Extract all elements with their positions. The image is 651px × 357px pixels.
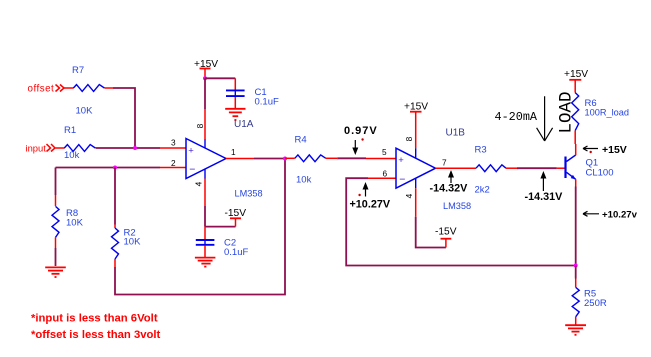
power +15V (U1A): [194, 59, 218, 78]
svg-text:6: 6: [383, 169, 388, 179]
svg-text:R3: R3: [475, 145, 487, 156]
power +15V (U1B): [404, 101, 428, 112]
svg-text:-14.31V: -14.31V: [525, 191, 564, 203]
junction input/offset: [133, 146, 137, 150]
svg-text:5: 5: [382, 147, 387, 157]
svg-text:-14.32V: -14.32V: [430, 182, 469, 194]
svg-text:+15V: +15V: [404, 101, 428, 112]
wire pin4 to -15V and C2: [205, 206, 236, 227]
op-amp U1B: [396, 148, 436, 188]
svg-text:offset: offset: [28, 84, 55, 95]
svg-text:+15V: +15V: [602, 144, 627, 156]
ground under C2: [195, 258, 216, 267]
op-amp U1A output wire: [226, 158, 285, 160]
resistor R2: [112, 168, 142, 268]
capacitor C2: [196, 227, 249, 258]
svg-text:-15V: -15V: [225, 208, 247, 219]
resistor R4: [285, 135, 337, 186]
resistor R5: [572, 279, 607, 325]
svg-text:+: +: [398, 155, 404, 166]
svg-text:10k: 10k: [296, 174, 312, 185]
svg-text:4: 4: [194, 181, 204, 186]
op-amp U1A: [186, 139, 226, 179]
svg-text:+: +: [188, 145, 194, 156]
resistor R7: [64, 65, 114, 117]
junction emitter/R5/feedback: [574, 264, 578, 268]
svg-text:1: 1: [231, 147, 236, 157]
wire R3 to Q1 base: [517, 167, 565, 169]
junction U1A output / R4: [283, 157, 287, 161]
wire R8 to ground: [55, 248, 57, 266]
svg-text:−: −: [399, 173, 405, 185]
ground under R5: [565, 325, 586, 335]
svg-text:CL100: CL100: [586, 168, 614, 179]
terminal label "input": [26, 143, 56, 154]
svg-text:3: 3: [171, 138, 176, 148]
svg-text:LM358: LM358: [443, 201, 471, 211]
svg-text:*input is less than 6Volt: *input is less than 6Volt: [31, 312, 158, 324]
svg-text:input: input: [26, 143, 47, 154]
op-amp U1B output wire: [436, 167, 477, 169]
ground under R8: [45, 267, 66, 277]
svg-text:-15V: -15V: [435, 227, 457, 238]
op-amp U1A pin 4: [194, 169, 206, 206]
probe -14.31V: [525, 171, 564, 203]
svg-text:LOAD: LOAD: [557, 91, 577, 133]
svg-text:4: 4: [404, 193, 414, 198]
svg-text:10K: 10K: [124, 237, 142, 248]
svg-text:+15V: +15V: [564, 69, 588, 80]
svg-text:R1: R1: [64, 125, 76, 136]
op-amp U1B pin 4: [404, 178, 416, 217]
Q1 emitter wire: [575, 179, 577, 265]
wire pin6 node / feedback from emitter: [346, 178, 576, 265]
svg-text:*offset is less than 3volt: *offset is less than 3volt: [31, 329, 161, 341]
svg-text:250R: 250R: [584, 298, 607, 309]
svg-text:7: 7: [442, 157, 447, 167]
svg-text:+10.27v: +10.27v: [602, 210, 638, 221]
svg-text:0.1uF: 0.1uF: [224, 247, 248, 258]
wire junction to R5: [575, 266, 577, 279]
wire R4 to pin5: [337, 157, 396, 159]
wire +15V to C1: [205, 78, 235, 109]
annotation arrow +15V at collector: [583, 144, 627, 156]
resistor R1: [56, 125, 96, 161]
junction +15V node: [203, 76, 207, 80]
svg-text:0.1uF: 0.1uF: [255, 96, 279, 107]
junction pin2/R2: [113, 166, 117, 170]
wire pin2 node: [56, 168, 187, 196]
svg-text:8: 8: [404, 136, 414, 141]
svg-text:10K: 10K: [66, 217, 84, 228]
resistor R3: [475, 145, 518, 196]
capacitor C1: [226, 78, 279, 108]
terminal label "offset": [28, 84, 65, 95]
power +15V (R6): [564, 69, 588, 93]
svg-text:4-20mA: 4-20mA: [495, 110, 538, 124]
ground under C1: [225, 109, 245, 120]
resistor R6 load: [572, 93, 629, 144]
svg-text:R4: R4: [295, 135, 307, 146]
probe 0.97V: [344, 125, 378, 155]
svg-text:U1B: U1B: [446, 128, 466, 139]
svg-text:0.97V: 0.97V: [344, 125, 378, 137]
svg-text:10K: 10K: [76, 106, 94, 117]
probe -14.32V: [430, 170, 469, 194]
svg-text:U1A: U1A: [234, 119, 254, 130]
svg-text:2k2: 2k2: [475, 184, 490, 195]
op-amp U1A pin 8: [195, 109, 205, 148]
op-amp U1B pin 8: [404, 112, 416, 159]
Q1 collector wire: [575, 144, 577, 155]
svg-text:8: 8: [195, 123, 205, 128]
power -15V (U1B): [435, 227, 457, 248]
resistor R8: [52, 195, 84, 248]
wire R2 bottom feedback to U1A output: [115, 159, 285, 295]
svg-text:+10.27V: +10.27V: [350, 199, 391, 211]
svg-text:2: 2: [171, 158, 176, 168]
svg-text:10k: 10k: [64, 150, 80, 161]
svg-text:LM358: LM358: [235, 188, 263, 198]
power -15V (U1A): [225, 208, 247, 227]
wire pin4 to -15V (U1B): [416, 217, 446, 248]
transistor Q1: [566, 155, 614, 179]
svg-text:100R_load: 100R_load: [585, 107, 629, 117]
wire input node to pin3: [96, 147, 187, 149]
annotation arrow +10.27v at emitter: [583, 210, 638, 221]
probe +10.27V: [350, 182, 391, 211]
wire offset node to input node: [113, 88, 135, 148]
svg-text:−: −: [189, 164, 195, 176]
svg-text:R7: R7: [72, 65, 84, 76]
annotation arrow 4-20mA: [537, 96, 553, 141]
